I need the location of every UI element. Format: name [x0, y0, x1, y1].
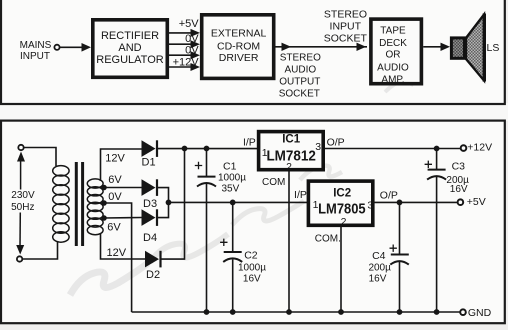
- svg-text:COM: COM: [262, 177, 285, 188]
- capacitor C4: [368, 202, 408, 312]
- svg-text:+5V: +5V: [179, 18, 200, 30]
- svg-text:+12V: +12V: [467, 142, 492, 154]
- wire IC1 output to +12V terminal: [325, 148, 462, 150]
- svg-text:C2: C2: [244, 249, 258, 261]
- top panel frame: [1, 0, 505, 104]
- svg-text:D2: D2: [146, 269, 160, 281]
- svg-text:IC1: IC1: [282, 134, 301, 146]
- polarity plus of C1: [195, 162, 202, 169]
- svg-text:16V: 16V: [243, 273, 261, 284]
- svg-text:1000µ: 1000µ: [238, 263, 266, 274]
- capacitor C2: [220, 202, 266, 312]
- node ground C4: [397, 309, 403, 315]
- node C1 junction top: [204, 146, 210, 152]
- svg-text:TAPE: TAPE: [380, 26, 406, 37]
- svg-text:200µ: 200µ: [368, 262, 391, 273]
- node C4 junction top: [397, 200, 403, 206]
- capacitor C3: [425, 149, 469, 313]
- svg-text:16V: 16V: [369, 273, 387, 284]
- svg-text:RECTIFIER: RECTIFIER: [101, 30, 159, 42]
- svg-text:230V: 230V: [11, 190, 35, 201]
- svg-text:1: 1: [313, 199, 319, 211]
- wire 0V tap down to ground rail: [104, 203, 132, 312]
- svg-text:3: 3: [367, 200, 373, 212]
- svg-text:STEREO: STEREO: [324, 8, 367, 20]
- diode D1: [142, 140, 158, 168]
- wire junction to IC2 input: [169, 201, 309, 203]
- svg-text:I/P: I/P: [243, 137, 256, 149]
- node D2 riser junction: [182, 146, 188, 152]
- terminal +5V: [458, 196, 486, 208]
- svg-text:AND: AND: [118, 42, 141, 54]
- node ground C3: [434, 309, 440, 315]
- svg-text:C4: C4: [372, 250, 386, 262]
- label STEREO INPUT SOCKET: [324, 8, 368, 44]
- svg-text:DECK: DECK: [379, 38, 407, 49]
- polarity plus of C2: [220, 239, 227, 246]
- loudspeaker LS: [451, 14, 499, 82]
- transformer X1 primary winding: [53, 166, 69, 243]
- wire D4 cathode to junction: [158, 202, 169, 217]
- polarity plus of C4: [390, 245, 397, 252]
- svg-text:12V: 12V: [105, 152, 125, 164]
- svg-text:O/P: O/P: [327, 137, 345, 149]
- diode D4: [142, 209, 158, 244]
- block TAPE DECK OR AUDIO AMP: [371, 19, 422, 85]
- ground rail: [132, 311, 460, 313]
- wire D2 cathode riser to +12V rail: [162, 149, 185, 260]
- transformer secondary winding: [87, 179, 103, 235]
- wire secondary top to D1 rail: [101, 149, 142, 181]
- block RECTIFIER AND REGULATOR: [93, 20, 168, 78]
- svg-text:6V: 6V: [108, 174, 122, 186]
- wire +12V with arrow: [169, 56, 200, 71]
- svg-text:3: 3: [315, 141, 321, 153]
- svg-text:+5V: +5V: [467, 196, 486, 208]
- svg-text:0V: 0V: [185, 45, 199, 57]
- IC2 LM7805: [308, 181, 373, 228]
- wire D1 to IC1 (+12V unregulated rail): [158, 148, 260, 150]
- svg-text:50Hz: 50Hz: [11, 202, 34, 213]
- diode D2: [145, 251, 161, 281]
- wire IC1 COM to ground: [288, 171, 290, 312]
- mains input terminal: [54, 45, 59, 50]
- svg-text:INPUT: INPUT: [330, 21, 362, 33]
- mains terminal top: [18, 145, 23, 150]
- terminal +12V: [461, 142, 492, 154]
- svg-text:D3: D3: [143, 198, 157, 210]
- diode D3: [142, 179, 158, 210]
- mains terminal bottom: [17, 256, 22, 261]
- svg-text:INPUT: INPUT: [20, 51, 50, 62]
- wire 6V tap to D3: [104, 187, 142, 189]
- polarity plus of C3: [425, 161, 432, 168]
- node ground C2: [230, 309, 236, 315]
- wire D3 cathode to junction: [158, 188, 169, 203]
- svg-text:STEREO: STEREO: [280, 53, 321, 64]
- block EXTERNAL CD-ROM DRIVER: [202, 15, 274, 79]
- wire 0V with arrow: [169, 33, 200, 48]
- svg-text:SOCKET: SOCKET: [324, 33, 368, 45]
- wire IC2 COM to ground: [340, 225, 342, 312]
- wire top terminal to primary: [24, 148, 56, 167]
- svg-text:AMP.: AMP.: [381, 75, 404, 86]
- secondary tap dot 0V: [101, 200, 107, 206]
- label MAINS INPUT: [20, 40, 52, 62]
- svg-text:CD-ROM: CD-ROM: [217, 41, 260, 53]
- svg-text:LM7805: LM7805: [318, 201, 366, 217]
- svg-text:LS: LS: [487, 42, 500, 54]
- svg-text:COM.: COM.: [315, 233, 341, 244]
- node ground IC2 COM: [338, 309, 344, 315]
- svg-text:GND: GND: [468, 307, 492, 319]
- svg-text:16V: 16V: [450, 184, 468, 195]
- secondary tap dot 6V lower: [101, 215, 107, 221]
- label STEREO AUDIO OUTPUT SOCKET: [279, 53, 321, 100]
- svg-text:C3: C3: [452, 160, 466, 172]
- svg-text:DRIVER: DRIVER: [219, 52, 259, 64]
- bottom panel frame: [1, 121, 505, 324]
- svg-text:AUDIO: AUDIO: [377, 62, 409, 73]
- terminal GND: [460, 307, 491, 319]
- transformer core: [76, 162, 82, 246]
- svg-text:D4: D4: [143, 232, 157, 244]
- wire CD-ROM to tape deck: [276, 43, 368, 51]
- svg-text:35V: 35V: [222, 184, 240, 195]
- node D3/D4 junction: [166, 200, 172, 206]
- wire +5V with arrow: [169, 18, 200, 37]
- svg-text:+12V: +12V: [173, 56, 200, 68]
- svg-text:6V: 6V: [107, 222, 121, 234]
- svg-text:REGULATOR: REGULATOR: [96, 54, 163, 66]
- svg-text:D1: D1: [142, 157, 156, 169]
- svg-text:I/P: I/P: [294, 189, 307, 201]
- node ground C1: [204, 309, 210, 315]
- wire 6V lower tap to D4: [104, 217, 142, 220]
- svg-text:SOCKET: SOCKET: [279, 88, 320, 99]
- wire tape deck to speaker: [423, 43, 450, 51]
- svg-text:12V: 12V: [107, 247, 127, 259]
- svg-text:1: 1: [262, 147, 268, 159]
- capacitor C1: [195, 149, 246, 313]
- secondary tap dot 6V upper: [101, 185, 107, 191]
- wire mains to rectifier: [60, 43, 91, 52]
- svg-text:OR: OR: [386, 50, 401, 61]
- svg-text:0V: 0V: [108, 191, 122, 203]
- svg-text:0V: 0V: [185, 33, 199, 45]
- watermark (decorative, not labelled as component): [70, 80, 412, 295]
- ac voltage arrow 230V 50Hz: [11, 152, 35, 255]
- node ground IC1 COM: [286, 309, 292, 315]
- wire 0V with arrow (second): [169, 45, 200, 60]
- wire bottom terminal to primary: [22, 241, 57, 259]
- svg-text:MAINS: MAINS: [20, 40, 52, 51]
- svg-text:C1: C1: [223, 160, 237, 172]
- wire IC2 output to +5V terminal: [373, 201, 458, 203]
- wire secondary bottom to D2: [101, 233, 146, 259]
- svg-text:IC2: IC2: [333, 188, 351, 200]
- svg-text:OUTPUT: OUTPUT: [279, 76, 320, 87]
- IC1 LM7812: [259, 132, 324, 173]
- svg-text:EXTERNAL: EXTERNAL: [211, 27, 267, 39]
- node C3 junction top: [434, 146, 440, 152]
- svg-text:AUDIO: AUDIO: [284, 65, 316, 76]
- svg-text:1000µ: 1000µ: [218, 173, 246, 184]
- svg-text:O/P: O/P: [380, 189, 398, 201]
- node C2 junction top: [230, 200, 236, 206]
